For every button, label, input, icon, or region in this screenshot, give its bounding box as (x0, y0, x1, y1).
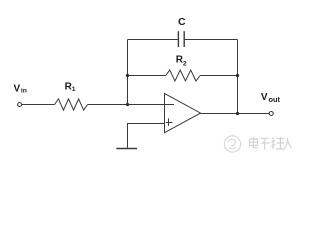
capacitor C (178, 31, 184, 47)
resistor R2 (166, 70, 200, 81)
svg-text:out: out (269, 95, 281, 104)
wire R1 to op-amp inverting input (stub forms minus marker) (88, 104, 174, 106)
watermark text (250, 137, 292, 150)
op-amp plus sign (166, 118, 173, 126)
node feedback left tee (126, 74, 129, 77)
wire input to R1 (22, 104, 55, 106)
wire feedback right vertical (237, 40, 239, 114)
wire inverting stub inside op-amp (165, 104, 174, 106)
wire R2 branch right (200, 75, 237, 77)
svg-text:in: in (21, 88, 27, 95)
wire top branch left (128, 39, 178, 41)
op-amp U1 (165, 93, 201, 132)
wire top branch right (185, 39, 238, 41)
resistor R1 (55, 99, 88, 110)
svg-text:2: 2 (183, 60, 187, 67)
svg-text:C: C (178, 16, 186, 28)
wire feedback left vertical (127, 40, 129, 105)
svg-text:V: V (261, 92, 268, 103)
svg-text:1: 1 (72, 86, 76, 93)
node feedback right tee (236, 74, 239, 77)
wire output (201, 113, 270, 115)
svg-text:V: V (14, 84, 21, 95)
watermark logo (224, 136, 240, 152)
wire non-inverting input (128, 124, 165, 148)
node output junction (236, 112, 239, 115)
node input junction (126, 103, 129, 106)
terminal Vout (269, 112, 273, 116)
wire R2 branch left (128, 75, 166, 77)
terminal Vin (18, 103, 22, 107)
ground (116, 148, 137, 150)
